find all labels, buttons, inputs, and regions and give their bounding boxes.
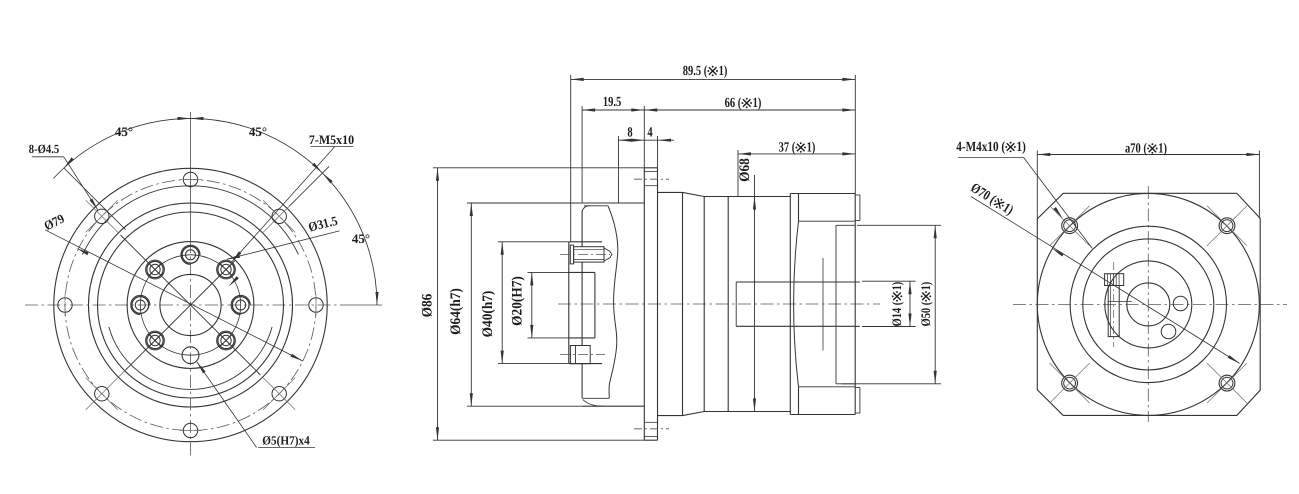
outer hole 90 horizontal mark bbox=[180, 179, 202, 181]
dim 89.5 ext left bbox=[570, 75, 572, 242]
outer hole 0 vertical mark bbox=[315, 294, 317, 316]
rear ring top bbox=[855, 194, 860, 196]
clamp slit line bbox=[1108, 301, 1132, 303]
output shaft left end bbox=[735, 282, 737, 326]
dim D20 line bbox=[531, 272, 533, 338]
tapped hole M5 with cross at 45 deg bbox=[218, 261, 234, 277]
output shaft top line bbox=[736, 281, 860, 283]
svg-text:1): 1) bbox=[1017, 140, 1027, 155]
boss circle bbox=[1070, 226, 1226, 382]
coupler hub bottom edge bbox=[569, 363, 602, 365]
body top profile bbox=[658, 192, 791, 196]
output shaft bottom line bbox=[736, 325, 860, 327]
dim D14 text bbox=[889, 282, 904, 327]
dowel pin centerline bbox=[560, 354, 605, 356]
outer hole D4.5 at 315 deg bbox=[272, 387, 286, 401]
inner bolt circle D31.5 bbox=[140, 255, 240, 355]
leader D5H7 bbox=[197, 362, 257, 448]
svg-text:7-M5x10: 7-M5x10 bbox=[309, 132, 354, 147]
svg-text:Ø68: Ø68 bbox=[737, 158, 753, 182]
bore bottom edge bbox=[569, 337, 595, 339]
rear block inner top line bbox=[799, 220, 856, 222]
flange top edge bbox=[644, 167, 657, 169]
clamp screw centerline bbox=[560, 254, 610, 256]
diagonal line NW-SE bbox=[121, 235, 261, 375]
dim D86 ext bbox=[433, 167, 644, 169]
outer hole D4.5 at 0 deg bbox=[309, 298, 323, 312]
mounting hole M4 at (1070,383) bbox=[1062, 375, 1078, 391]
svg-text:Ø64(h7): Ø64(h7) bbox=[448, 288, 464, 335]
tapped hole M5 with cross at 135 deg bbox=[147, 261, 163, 277]
arc arrow at 135deg bbox=[63, 157, 74, 169]
rear face bbox=[854, 194, 856, 415]
rear pilot line bbox=[835, 225, 837, 383]
dim 19.5 ext bbox=[581, 106, 583, 203]
svg-text:1): 1) bbox=[1158, 142, 1167, 157]
dim D64 ext bbox=[467, 202, 582, 204]
coupler hub top edge bbox=[569, 241, 602, 243]
mounting hole M4 at (1227,383) bbox=[1219, 375, 1235, 391]
flange top hole lines bbox=[644, 171, 658, 173]
outer hole 45 cross marks bbox=[263, 200, 295, 232]
flange outer circle D86 bbox=[54, 168, 327, 441]
svg-text:1): 1) bbox=[918, 282, 933, 291]
svg-text:Ø5(H7)x4: Ø5(H7)x4 bbox=[262, 434, 310, 448]
dim 66 ext left bbox=[643, 106, 645, 168]
middle view centerline bbox=[558, 303, 880, 305]
dim D64 line bbox=[470, 203, 472, 406]
dim 8-4 line bbox=[619, 139, 675, 141]
outer hole 135 cross marks bbox=[86, 200, 118, 232]
arc arrows at 90deg bbox=[191, 117, 204, 120]
outer hole D4.5 at 225 deg bbox=[95, 387, 109, 401]
outer hole D4.5 at 180 deg bbox=[58, 298, 72, 312]
bore top edge bbox=[569, 271, 595, 273]
svg-text:8-Ø4.5: 8-Ø4.5 bbox=[29, 142, 59, 156]
svg-text:Ø14 (: Ø14 ( bbox=[889, 302, 904, 327]
svg-text:1): 1) bbox=[807, 141, 816, 156]
body ring line 2 bbox=[703, 197, 705, 412]
dim D14 ext bbox=[862, 280, 916, 282]
svg-text:45°: 45° bbox=[115, 124, 133, 139]
flange bottom edge bbox=[644, 439, 657, 441]
bearing line bbox=[822, 258, 824, 351]
svg-text:45°: 45° bbox=[352, 231, 370, 246]
tapped hole M5 at 90 deg bbox=[182, 246, 199, 263]
broken-out section wavy line bbox=[608, 206, 618, 398]
dim D20 ext bbox=[528, 271, 570, 273]
svg-text:a70 (: a70 ( bbox=[1125, 142, 1147, 157]
rear block inner bottom line bbox=[799, 386, 856, 388]
rear pilot bottom edge bbox=[836, 383, 855, 385]
outer hole D4.5 at 45 deg bbox=[272, 209, 286, 223]
outer hole D4.5 at 270 deg bbox=[183, 423, 197, 437]
label D70 bbox=[968, 181, 1016, 219]
mounting hole M4 at (1227,226) bbox=[1219, 218, 1235, 234]
dim 4 ext bbox=[657, 136, 659, 168]
hub circle D40 bbox=[127, 242, 254, 369]
partial circle bottom bbox=[109, 327, 272, 390]
bolt circle D79 bbox=[65, 180, 316, 431]
collar circle bbox=[98, 212, 284, 398]
rear block bottom edge bbox=[790, 414, 855, 416]
spigot ring front face bbox=[581, 211, 583, 247]
radial extension 45deg bbox=[290, 166, 330, 206]
dim D14 line bbox=[909, 281, 911, 326]
diagonal line SW-NE bbox=[126, 261, 236, 371]
outer hole D4.5 at 135 deg bbox=[95, 209, 109, 223]
tapped hole M5 with cross at 315 deg bbox=[218, 332, 234, 348]
svg-text:1): 1) bbox=[889, 282, 904, 291]
label 4-M4x10 bbox=[956, 140, 1026, 155]
body bottom profile bbox=[658, 412, 791, 416]
svg-text:1): 1) bbox=[719, 64, 728, 79]
spigot ring top edge bbox=[582, 202, 644, 204]
right view vertical centerline bbox=[1147, 186, 1149, 422]
rear block top edge bbox=[790, 193, 855, 195]
rear pilot top edge bbox=[836, 224, 855, 226]
dim a70 line bbox=[1037, 154, 1259, 156]
svg-text:Ø86: Ø86 bbox=[420, 294, 436, 318]
dim 89.5 line bbox=[571, 78, 856, 80]
rear block corner lines bbox=[798, 194, 800, 222]
svg-text:1): 1) bbox=[753, 96, 762, 111]
body ring line 1 bbox=[682, 192, 684, 415]
svg-text:4-M4x10 (: 4-M4x10 ( bbox=[956, 140, 1005, 155]
tapped hole M5 at 0 deg bbox=[232, 297, 249, 314]
outer hole 315 cross marks bbox=[263, 378, 295, 410]
slot vertical centerline bbox=[1113, 262, 1115, 347]
inner circle bbox=[1083, 239, 1214, 370]
access hole lower bbox=[1161, 324, 1176, 339]
step face bbox=[789, 194, 791, 415]
dim 89.5 ext right bbox=[854, 75, 856, 194]
tapped hole M5 at 180 deg bbox=[132, 297, 149, 314]
svg-text:89.5 (: 89.5 ( bbox=[683, 64, 708, 79]
flange front face bbox=[643, 168, 645, 440]
tapped hole M5 with cross at 225 deg bbox=[147, 332, 163, 348]
mounting hole M4 at (1070,226) bbox=[1062, 218, 1078, 234]
dim D40 line bbox=[501, 242, 503, 364]
dim D86 line bbox=[437, 168, 439, 440]
clamp screw tip bbox=[604, 248, 612, 261]
dim 19.5/66 line bbox=[582, 109, 855, 111]
clamp screw head bbox=[1105, 274, 1124, 286]
access hole right bbox=[1173, 296, 1188, 311]
clamp screw head bbox=[570, 245, 573, 264]
leader 4-M4x10 bbox=[1024, 158, 1093, 249]
bore right face bbox=[594, 272, 596, 338]
dim 66 text bbox=[725, 96, 762, 111]
outer hole 225 cross marks bbox=[86, 378, 118, 410]
flange top hole centerline bbox=[634, 178, 669, 180]
spigot recess bottom box bbox=[583, 397, 610, 399]
flange bottom hole lines bbox=[644, 421, 658, 423]
dim 89.5 text bbox=[683, 64, 728, 79]
svg-text:66 (: 66 ( bbox=[725, 96, 742, 111]
leader D79 bbox=[45, 230, 303, 361]
leader D70 bbox=[971, 197, 1240, 364]
body ring line 3 bbox=[727, 197, 729, 412]
clamp screw thread lines bbox=[574, 248, 604, 250]
dowel pin bbox=[570, 346, 590, 364]
left view horizontal centerline bbox=[25, 304, 340, 306]
bore circle D20 bbox=[160, 274, 221, 335]
spigot ring bottom edge bbox=[582, 405, 644, 407]
dim D50 line bbox=[934, 225, 936, 383]
leader D31.5 bbox=[227, 231, 339, 259]
coupler hub front face bbox=[568, 242, 570, 364]
dim D68 line bbox=[754, 175, 756, 412]
outer hole 180 vertical mark bbox=[64, 294, 66, 316]
dim D50 ext bbox=[857, 224, 941, 226]
svg-text:37 (: 37 ( bbox=[779, 141, 796, 156]
dim D50 text bbox=[918, 282, 933, 327]
radial extension 135deg bbox=[64, 168, 126, 230]
svg-text:8: 8 bbox=[627, 126, 632, 141]
svg-text:4: 4 bbox=[647, 126, 652, 141]
dim 37 text bbox=[779, 141, 816, 156]
clamp slot bbox=[1108, 286, 1119, 337]
spigot recess top line bbox=[584, 205, 608, 207]
arc arrows at 45deg bbox=[321, 172, 332, 183]
rear curved surface bbox=[794, 221, 799, 387]
dim 37 line bbox=[738, 153, 855, 155]
rear ring bottom bbox=[855, 412, 860, 414]
leader 8-D4.5 bbox=[64, 157, 98, 211]
dim 8 ext bbox=[618, 136, 620, 203]
right view horizontal centerline bbox=[1013, 303, 1287, 305]
leader 7-M5x10 bbox=[232, 146, 335, 262]
pilot circle D70 bbox=[1037, 193, 1259, 415]
svg-text:19.5: 19.5 bbox=[603, 95, 621, 110]
dim a70 text bbox=[1125, 142, 1167, 157]
flange bottom hole centerline bbox=[634, 428, 669, 430]
svg-text:Ø50 (: Ø50 ( bbox=[918, 302, 933, 327]
left view vertical centerline bbox=[190, 240, 192, 456]
clamp screw shank bbox=[574, 247, 604, 262]
dim D40 ext bbox=[498, 241, 569, 243]
svg-text:Ø40(h7): Ø40(h7) bbox=[480, 290, 496, 337]
hub circle bbox=[1105, 261, 1192, 348]
svg-text:45°: 45° bbox=[249, 124, 267, 139]
partial circle top bbox=[83, 186, 299, 255]
center bore D14 bbox=[1127, 283, 1170, 326]
outer hole 270 horizontal mark bbox=[180, 430, 202, 432]
square flange outline bbox=[1037, 193, 1260, 415]
dowel hole D5H7 bottom bbox=[182, 347, 199, 364]
outer hole D4.5 at 90 deg bbox=[183, 172, 197, 186]
flange rear face bbox=[657, 168, 659, 440]
angular dimension arc bbox=[53, 118, 377, 305]
arc arrow at 0deg bbox=[375, 292, 378, 305]
dim a70 ext bbox=[1036, 151, 1038, 219]
svg-text:Ø20(H7): Ø20(H7) bbox=[510, 276, 526, 326]
dim 37 ext bbox=[737, 150, 739, 197]
spigot circle D64 bbox=[89, 203, 293, 407]
